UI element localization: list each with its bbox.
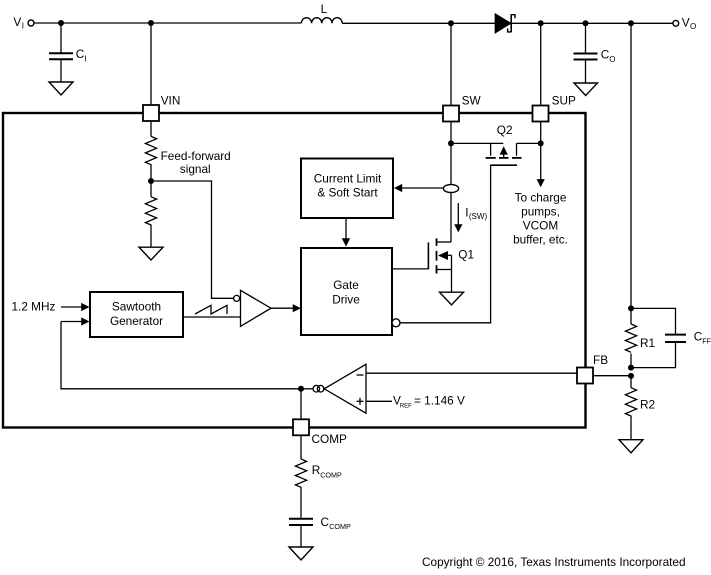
ground below CO xyxy=(574,83,598,96)
wire SUP column top xyxy=(540,23,542,105)
junction divider FB xyxy=(628,373,634,379)
wire sawtooth output xyxy=(183,316,241,318)
pin FB xyxy=(577,353,608,384)
wire Q2 source to SUP xyxy=(517,142,541,144)
current sense ISW xyxy=(443,185,458,193)
capacitor CCOMP xyxy=(289,515,351,547)
svg-text:REF: REF xyxy=(400,403,412,409)
resistor RCOMP xyxy=(295,435,342,517)
junction top rail at CI xyxy=(58,20,64,26)
wire COMP feedback to sawtooth generator xyxy=(61,322,301,389)
arrow ISW with label xyxy=(454,203,487,233)
block Sawtooth Generator xyxy=(90,292,183,337)
svg-text:R1: R1 xyxy=(640,336,655,350)
ground below CI xyxy=(49,82,73,95)
wire Q2 gate to gate drive xyxy=(400,165,491,323)
svg-text:1.2 MHz: 1.2 MHz xyxy=(12,300,56,314)
wire ellipse to Q1 drain xyxy=(450,193,452,243)
sawtooth waveform symbol xyxy=(195,305,227,314)
junction SUP at Q2 xyxy=(538,140,544,146)
junction top rail at CO xyxy=(583,20,589,26)
svg-text:& Soft Start: & Soft Start xyxy=(317,186,378,200)
ground below CCOMP xyxy=(289,547,313,560)
wire error amp output to COMP node xyxy=(301,388,313,390)
svg-text:FF: FF xyxy=(702,336,711,345)
svg-text:V: V xyxy=(13,15,21,29)
svg-text:COMP: COMP xyxy=(320,471,342,480)
wire COMP node down to COMP pin xyxy=(300,389,302,420)
svg-text:Q1: Q1 xyxy=(458,247,474,261)
svg-text:O: O xyxy=(609,55,615,64)
comparator U1 xyxy=(234,290,271,326)
junction COMP node xyxy=(298,386,304,392)
wire diode to VO xyxy=(512,22,673,24)
svg-text:Generator: Generator xyxy=(110,314,163,328)
arrow SUP to charge pumps xyxy=(537,143,545,187)
svg-text:pumps,: pumps, xyxy=(521,204,560,218)
svg-text:To charge: To charge xyxy=(515,190,567,204)
wire SW to Q2 drain xyxy=(451,142,503,144)
svg-text:L: L xyxy=(321,2,328,16)
wire SW column top xyxy=(450,23,452,105)
diode D1 schottky xyxy=(495,14,515,33)
wire error amp noninverting stub xyxy=(366,400,392,402)
arrow Current Limit to Gate Drive xyxy=(342,218,350,247)
svg-text:VCOM: VCOM xyxy=(523,219,558,233)
wire SUP column into IC xyxy=(540,122,542,144)
node VI xyxy=(13,15,34,30)
ground Q1 source xyxy=(440,292,464,305)
svg-text:SUP: SUP xyxy=(552,94,576,108)
transistor Q2 xyxy=(486,123,522,165)
svg-text:= 1.146 V: = 1.146 V xyxy=(414,394,465,408)
junction feed-forward node xyxy=(148,178,154,184)
junction top rail at SUP xyxy=(538,20,544,26)
ground below feed-forward divider xyxy=(139,247,163,260)
svg-text:COMP: COMP xyxy=(312,432,348,446)
label To charge pumps VCOM buffer etc xyxy=(513,190,568,246)
svg-text:R2: R2 xyxy=(640,397,655,411)
label Feed-forward signal xyxy=(161,149,231,176)
arrow feedback input to sawtooth generator xyxy=(61,317,90,325)
junction top rail at SW xyxy=(448,20,454,26)
junction divider CFF bottom xyxy=(628,365,634,371)
wire feed-forward node to comparator xyxy=(154,181,234,298)
junction top rail at VIN xyxy=(148,20,154,26)
svg-text:Copyright © 2016, Texas Instru: Copyright © 2016, Texas Instruments Inco… xyxy=(422,555,686,569)
arrow current sense to Current Limit xyxy=(394,184,443,192)
svg-text:I: I xyxy=(22,21,24,30)
svg-text:O: O xyxy=(690,22,696,31)
pin SUP xyxy=(533,94,576,122)
capacitor CI xyxy=(49,23,87,82)
arrow 1.2 MHz input xyxy=(61,303,90,311)
block Current Limit and Soft Start xyxy=(301,159,393,219)
svg-text:C: C xyxy=(76,47,85,61)
junction SW at Q2 xyxy=(448,140,454,146)
block Gate Drive xyxy=(301,248,392,335)
pin COMP xyxy=(293,419,347,446)
svg-text:SW: SW xyxy=(462,94,482,108)
inductor L xyxy=(301,2,342,24)
node VO xyxy=(673,15,696,31)
svg-text:Q2: Q2 xyxy=(497,123,513,137)
svg-text:COMP: COMP xyxy=(329,522,351,531)
wire VO column to R1 xyxy=(630,23,632,308)
svg-text:Gate: Gate xyxy=(333,278,359,292)
pin VIN xyxy=(143,94,180,121)
wire error amp inverting input to FB xyxy=(366,372,577,374)
ground below R2 xyxy=(619,440,643,453)
svg-text:Current Limit: Current Limit xyxy=(314,171,382,185)
resistor R2 xyxy=(625,376,655,440)
transistor Q1 xyxy=(392,238,474,273)
svg-text:(SW): (SW) xyxy=(469,212,488,221)
svg-text:Drive: Drive xyxy=(332,292,360,306)
svg-text:FB: FB xyxy=(593,353,608,367)
pin SW xyxy=(443,94,481,122)
IC boundary xyxy=(3,113,586,428)
svg-text:R: R xyxy=(312,463,321,477)
capacitor CO xyxy=(574,23,616,83)
bubble gate drive output xyxy=(392,319,400,327)
resistor R1 xyxy=(625,308,655,367)
resistor feed-forward upper xyxy=(145,121,156,178)
junction divider top xyxy=(628,305,634,311)
wire top rail VI to inductor xyxy=(34,22,301,24)
capacitor CFF xyxy=(631,308,711,367)
wire inductor to diode xyxy=(342,22,495,24)
junction top rail at R1 column xyxy=(628,20,634,26)
svg-text:V: V xyxy=(682,15,690,29)
wire Q1 source to ground xyxy=(451,270,453,293)
svg-text:buffer, etc.: buffer, etc. xyxy=(513,233,568,247)
svg-text:VIN: VIN xyxy=(161,94,181,108)
arrow comparator to Gate Drive xyxy=(271,304,301,312)
svg-text:I: I xyxy=(85,55,87,64)
svg-text:signal: signal xyxy=(180,162,211,176)
svg-text:Sawtooth: Sawtooth xyxy=(112,300,161,314)
wire VIN column xyxy=(150,23,152,105)
svg-text:C: C xyxy=(321,515,330,529)
wire SW column into IC xyxy=(450,122,452,185)
label VREF value xyxy=(393,394,465,410)
wire FB pin to divider xyxy=(593,375,631,377)
error amplifier U2 xyxy=(313,364,366,413)
resistor feed-forward lower xyxy=(145,181,156,247)
